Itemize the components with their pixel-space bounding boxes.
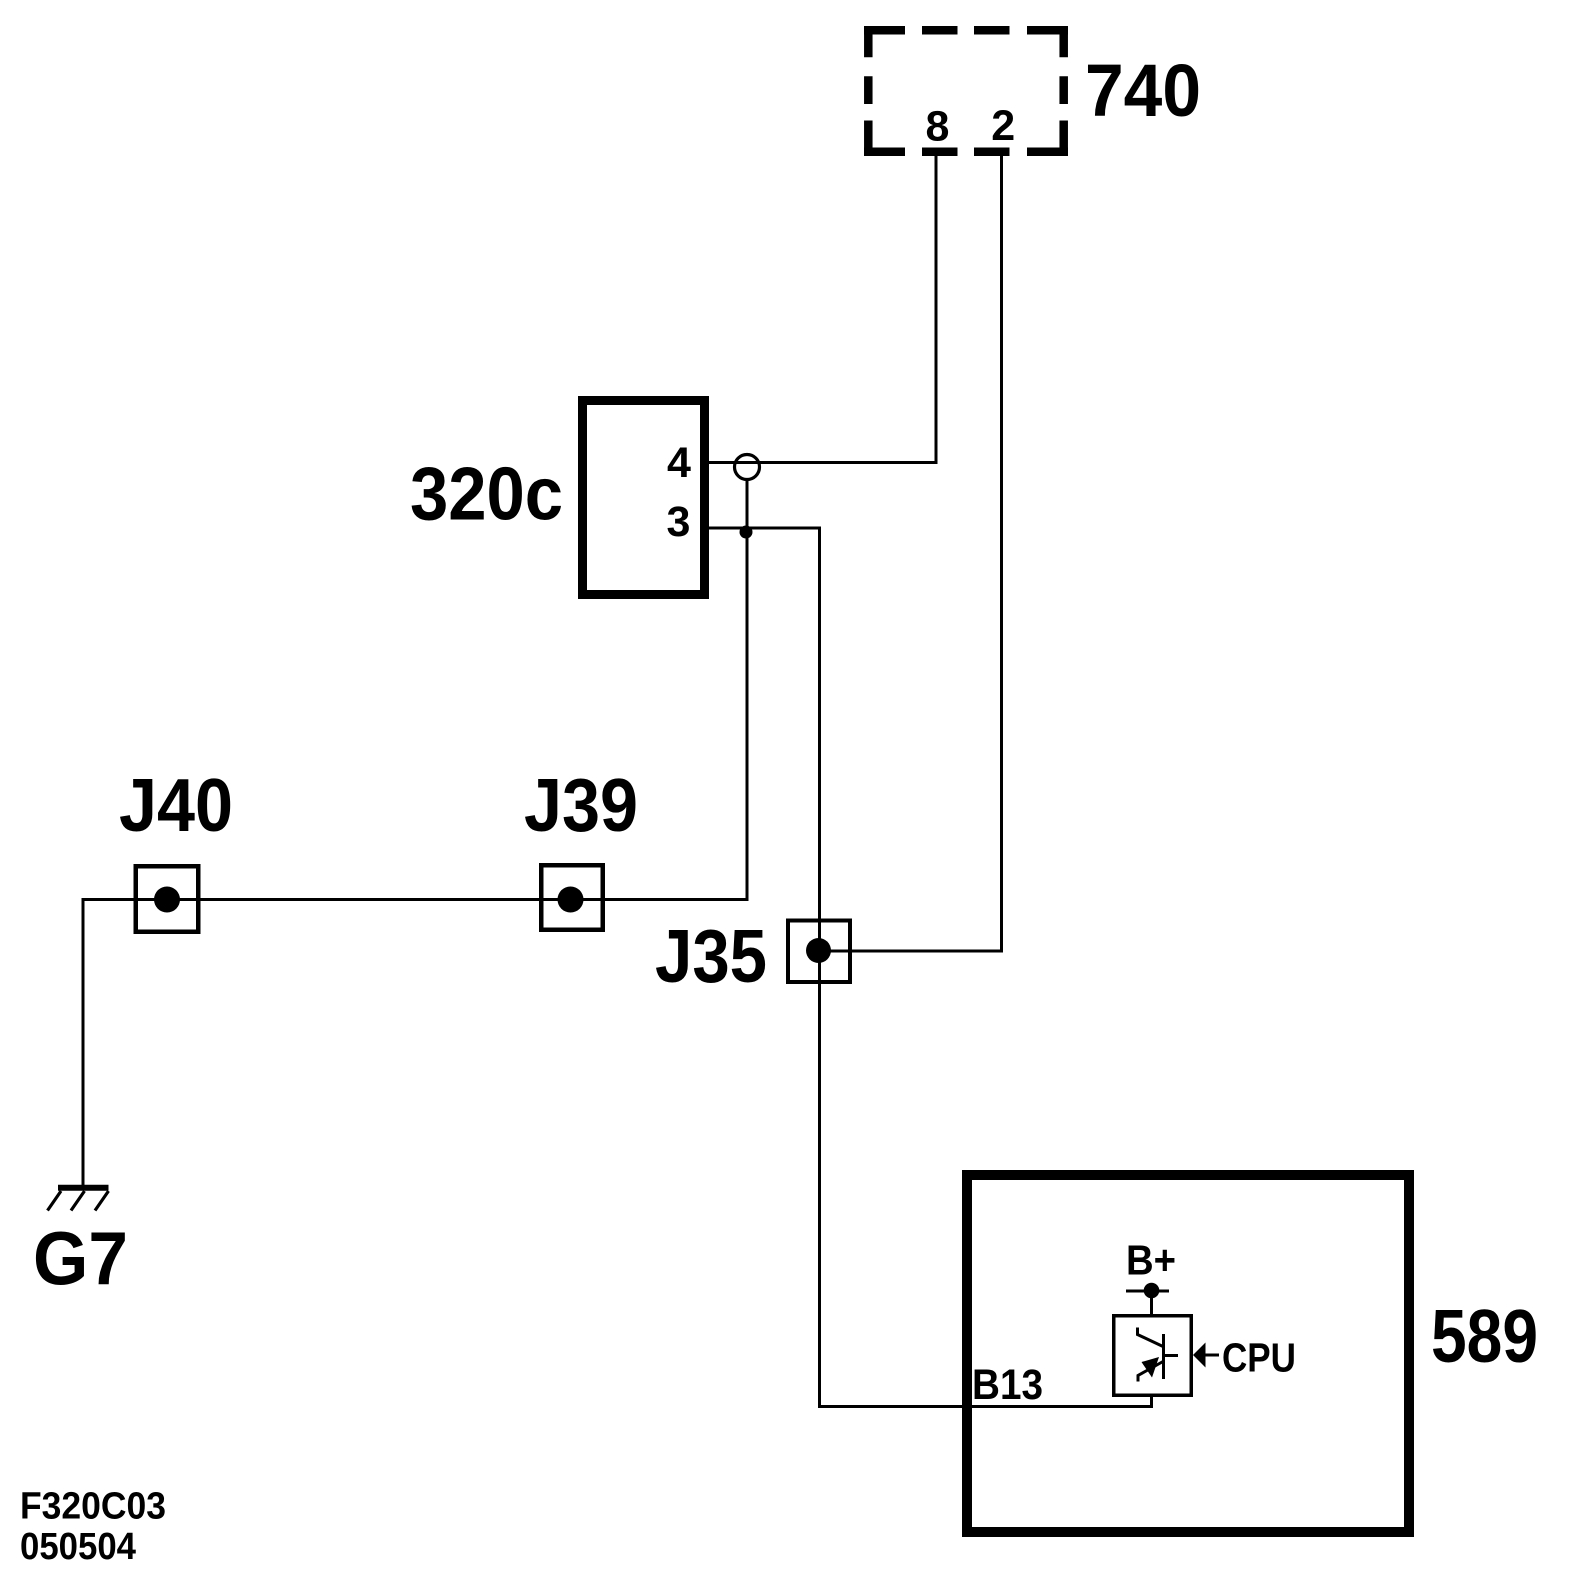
component 320c (box) xyxy=(583,401,705,595)
wire pin2-to-J35 xyxy=(819,156,1002,951)
junction J40 xyxy=(136,866,199,932)
B+ terminal dot xyxy=(1144,1283,1160,1299)
junction J35 xyxy=(788,921,850,983)
output driver box xyxy=(1114,1316,1192,1396)
svg-text:8: 8 xyxy=(925,103,949,151)
svg-text:B13: B13 xyxy=(972,1361,1043,1409)
svg-text:3: 3 xyxy=(667,498,691,546)
ground G7 symbol xyxy=(48,1188,109,1211)
svg-text:CPU: CPU xyxy=(1222,1335,1296,1381)
transistor Q (driver) xyxy=(1138,1328,1179,1382)
ECU 589 (box) xyxy=(967,1175,1409,1532)
junction J39 xyxy=(541,865,603,930)
svg-text:B+: B+ xyxy=(1126,1237,1176,1284)
B+ terminal bar xyxy=(1126,1290,1169,1293)
emitter arrowhead xyxy=(1142,1357,1160,1378)
svg-text:589: 589 xyxy=(1431,1294,1538,1378)
wire pin3-to-B13 xyxy=(709,528,1152,1407)
wire ground-J40-J39-shield xyxy=(83,480,747,1186)
wire B+ to driver box xyxy=(1150,1291,1153,1317)
connector circle at pin 4 xyxy=(735,455,760,480)
svg-text:2: 2 xyxy=(991,102,1015,150)
connector 740 (dashed box) xyxy=(864,26,1068,156)
svg-text:J39: J39 xyxy=(524,763,638,847)
CPU arrow xyxy=(1193,1343,1206,1368)
junction dot at pin 3 xyxy=(740,526,753,539)
svg-text:F320C03: F320C03 xyxy=(20,1485,166,1527)
svg-text:050504: 050504 xyxy=(20,1526,136,1568)
svg-text:4: 4 xyxy=(667,439,691,487)
svg-text:G7: G7 xyxy=(33,1217,128,1301)
svg-text:320c: 320c xyxy=(410,451,563,535)
svg-text:740: 740 xyxy=(1085,49,1201,132)
svg-text:J35: J35 xyxy=(655,914,767,998)
wire pin8-to-pin4 net xyxy=(709,156,936,463)
svg-text:J40: J40 xyxy=(119,763,233,847)
